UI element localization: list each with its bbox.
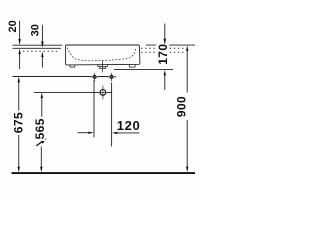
supply level line 675 [13,76,116,78]
label 565 [33,117,47,141]
dim 565 line upper [41,98,43,117]
dim 675 line lower [18,135,20,167]
arrowhead 675 down [18,167,20,173]
dim 20 upper leader [19,21,21,40]
extension line rim-top left [13,44,63,46]
dotted row 2 right [141,51,184,53]
label 170 [156,44,170,65]
dotted row 1 right [141,47,184,49]
arrowhead 170 down [164,39,167,45]
dotted alt counter line left [23,50,60,52]
dim 120 right ext line [111,83,113,147]
arrowhead 30 up [41,52,43,58]
dim 120 left ext line [93,80,95,138]
dim 120 left arrow tail [78,132,89,134]
floor line [12,172,196,174]
dim 120 right arrow tail [118,132,140,134]
svg-text:20: 20 [7,20,19,32]
arrowhead 120 left [112,132,118,134]
label 900 [175,93,189,120]
extension line basin underside [114,69,173,71]
extension line rim-top right [146,44,195,46]
basin bowl dashed interior [67,48,136,61]
svg-text:900: 900 [175,96,189,117]
dim 170 upper leader [164,24,166,40]
connection symbol B [107,73,116,81]
extension line counter-top left [13,47,62,49]
svg-text:120: 120 [117,118,141,133]
dim 30 upper leader [41,25,43,42]
dim 900 line upper [186,51,188,93]
svg-text:675: 675 [11,112,25,133]
drain connection symbol [96,85,111,99]
arrowhead 120 right [88,132,94,134]
arrowhead 20 up [18,49,20,55]
arrowhead 30 down [41,42,44,48]
oblique arrow shaft [36,142,42,146]
svg-text:565: 565 [33,118,47,139]
dim 20 lower leader [19,54,21,70]
dim 675 line upper [18,82,20,111]
arrowhead 170 up [164,70,166,76]
arrowhead 565 down [40,167,42,173]
drain fitting [98,65,108,69]
right foot [129,65,135,68]
arrowhead 900 down [186,167,188,173]
arrowhead 675 up [18,77,20,83]
label 675 [11,111,25,136]
drain axis [102,61,104,73]
connection symbol A [90,73,99,81]
arrowhead 900 up [186,45,188,51]
dim 565 line lower [40,147,42,168]
svg-text:170: 170 [156,44,170,65]
dim 30 lower leader [41,57,43,68]
basin outline [66,45,140,65]
arrowhead 565 up [41,93,43,99]
drain level line 565 [34,91,112,93]
svg-text:30: 30 [30,24,42,36]
dim 170 lower leader [164,75,166,90]
oblique arrowhead [40,138,46,144]
arrowhead 20 down [18,39,21,45]
dim 900 line lower [186,120,188,167]
left foot [70,65,75,67]
